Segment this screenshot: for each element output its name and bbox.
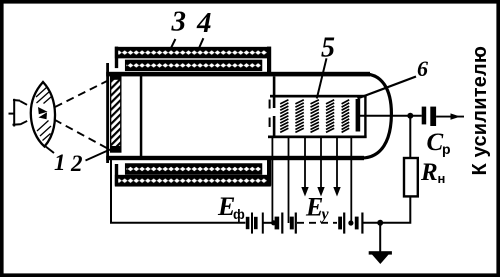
svg-text:1: 1 [54, 150, 66, 175]
ray (dashed, object top to photocathode bottom) [20, 101, 110, 150]
svg-text:5: 5 [321, 33, 335, 64]
label 6 leader [358, 77, 417, 99]
svg-text:3: 3 [171, 6, 187, 38]
signal plate 6 [356, 99, 361, 132]
wire junction to resistor [409, 116, 411, 158]
tube envelope top wall [106, 72, 370, 77]
coil 3 bottom strip (inner) [126, 164, 262, 174]
coil 4 top strip (outer) [116, 48, 271, 58]
wire battery to resistor branch [362, 196, 410, 222]
electrode cylinder left edge [140, 76, 143, 156]
tube envelope dome (right end) [362, 74, 391, 158]
object arrow (scene object at left) [9, 99, 21, 127]
photocathode lead wire [111, 160, 245, 223]
battery Ey cell group B [338, 213, 362, 234]
lens L (objective) [31, 82, 55, 147]
tube envelope bottom wall [106, 156, 364, 160]
coil frame right cap bottom [267, 160, 271, 186]
coil 4 bottom strip (outer) [116, 176, 271, 186]
lead with arrow 2 [320, 138, 322, 188]
capacitor Cp [422, 107, 427, 125]
grid column 4 [326, 100, 334, 133]
signal output wire [360, 115, 422, 117]
ray (dashed, object bottom to photocathode top) [20, 80, 110, 125]
tube faceplate [106, 63, 109, 163]
resistor Rn [404, 158, 418, 196]
output arrow [436, 116, 464, 118]
svg-text:ф: ф [233, 207, 245, 222]
grid column 2 [295, 100, 303, 133]
grid box right edge [364, 95, 366, 138]
grid column 5 [342, 100, 350, 133]
label 5 leader [317, 58, 327, 98]
coil 3 top strip (inner) [126, 60, 262, 70]
ground [369, 251, 392, 254]
junction node at ground branch [377, 220, 383, 226]
junction node at capacitor [407, 113, 413, 119]
electrode cylinder right edge (with beam gap) [273, 77, 276, 109]
svg-text:4: 4 [196, 7, 212, 39]
photocathode 2 (hatched plate) [110, 74, 121, 153]
svg-text:К усилителю: К усилителю [469, 46, 491, 176]
label 4 leader [199, 38, 203, 47]
grid column 1 [280, 100, 288, 133]
label 2 leader [86, 150, 111, 161]
electrode lead wires below tube [271, 138, 273, 223]
coil frame right cap top [267, 47, 271, 73]
grid box left edge (dashed) [269, 100, 271, 109]
lead with arrow 3 [336, 138, 338, 188]
lead with arrow 1 [304, 138, 306, 188]
grid box top line [270, 95, 367, 98]
svg-text:6: 6 [417, 56, 428, 81]
dashed wire in Ey chain [297, 222, 337, 224]
svg-text:н: н [438, 171, 446, 186]
wire Ef to Ey [263, 222, 275, 224]
ground wire [379, 223, 381, 252]
svg-text:C: C [427, 129, 444, 156]
svg-text:р: р [442, 141, 451, 157]
ray arrowheads at lens centre [38, 107, 48, 114]
grid box bottom line [268, 136, 367, 139]
svg-text:у: у [320, 206, 330, 223]
coil frame left cap bottom [115, 164, 118, 186]
label 1 leader [45, 146, 54, 153]
grid column 3 [311, 100, 319, 133]
svg-text:2: 2 [70, 151, 83, 176]
coil frame left cap top [115, 47, 118, 69]
svg-text:R: R [420, 159, 438, 186]
battery Ef [246, 213, 263, 234]
lead to battery tap [350, 138, 352, 223]
grids 5 (hatched columns) [280, 100, 349, 133]
battery Ey cell group A [271, 213, 296, 234]
label 3 leader [171, 39, 175, 48]
